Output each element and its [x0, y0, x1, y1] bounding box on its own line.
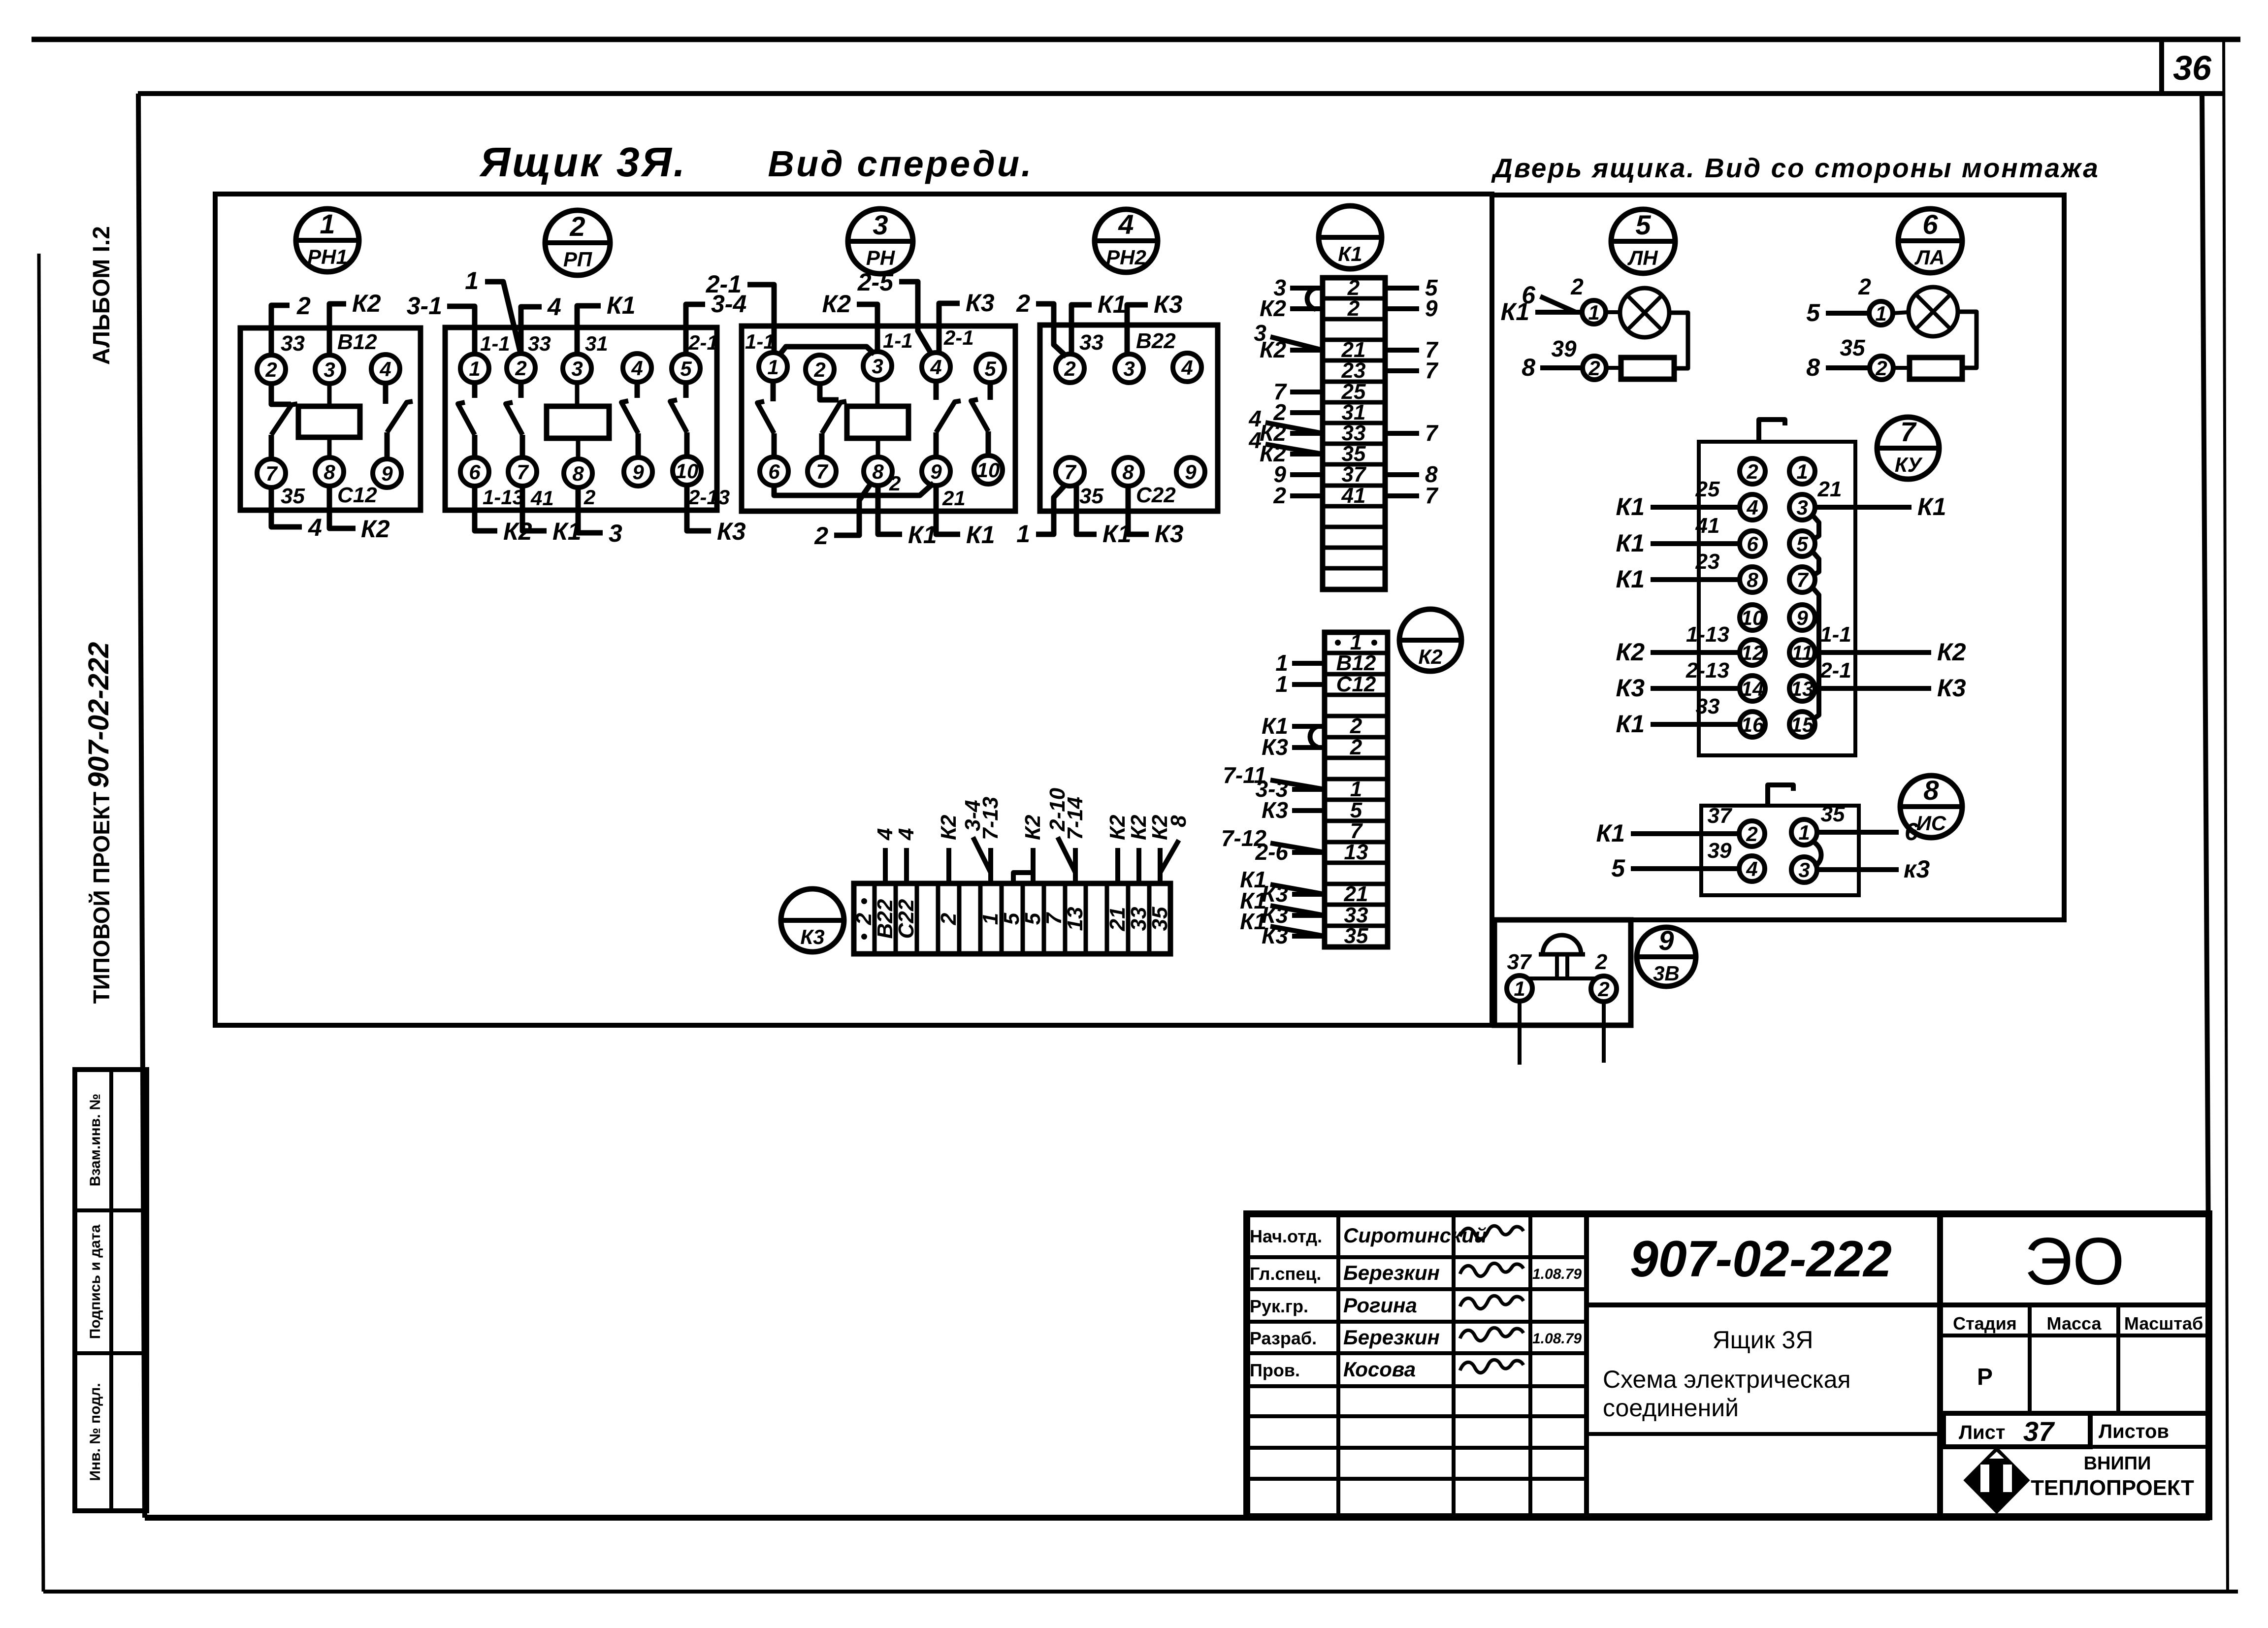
svg-text:1: 1 — [320, 208, 335, 239]
relay РП pin 5 — [672, 354, 700, 383]
svg-text:Р: Р — [1977, 1364, 1993, 1390]
svg-text:1.08.79: 1.08.79 — [1532, 1266, 1582, 1282]
svg-text:В22: В22 — [1136, 329, 1176, 353]
wire pin7 to node К1 — [1076, 485, 1097, 534]
svg-text:5: 5 — [1021, 912, 1045, 925]
svg-text:1: 1 — [1016, 520, 1030, 548]
relay РН designator circle 3/РН — [848, 209, 913, 274]
wire К1:2 to node 9 — [1385, 306, 1419, 311]
svg-text:1: 1 — [1875, 302, 1886, 325]
svg-text:3: 3 — [1798, 858, 1810, 881]
wire node 4 to К3:В22 — [883, 848, 888, 883]
contact РП 2-7 — [518, 381, 524, 398]
svg-text:907-02-222: 907-02-222 — [83, 642, 115, 788]
svg-text:36: 36 — [2173, 49, 2212, 87]
wire bell pin1 lead — [1518, 1001, 1522, 1065]
sheet bottom edge line — [43, 1590, 2238, 1594]
relay РП pin 10 — [673, 456, 701, 485]
svg-text:15: 15 — [1791, 713, 1814, 736]
terminal К2 cell dots — [1335, 640, 1341, 646]
svg-text:Березкин: Березкин — [1343, 1326, 1440, 1349]
svg-text:7: 7 — [1350, 819, 1363, 843]
wire node 2 to К1:41 — [1290, 493, 1323, 498]
relay РН1 pin 3 — [315, 355, 344, 384]
wire node 7 to К1:25 — [1290, 390, 1323, 394]
svg-text:К3: К3 — [1154, 291, 1183, 318]
jumper К1 rows 1-2 — [1307, 288, 1316, 309]
svg-text:В12: В12 — [337, 330, 377, 354]
terminal strip К2 designator circle — [1399, 609, 1461, 671]
svg-text:2: 2 — [1350, 714, 1362, 738]
svg-text:КУ: КУ — [1895, 453, 1923, 476]
svg-text:9: 9 — [1185, 460, 1197, 484]
svg-text:35: 35 — [1821, 802, 1845, 826]
svg-text:39: 39 — [1551, 336, 1577, 361]
relay РН1 pin 8 — [315, 457, 344, 486]
svg-text:9: 9 — [632, 460, 644, 484]
svg-text:16: 16 — [1741, 713, 1764, 736]
svg-text:1: 1 — [469, 357, 480, 380]
svg-text:4: 4 — [873, 828, 897, 841]
sheet right edge line — [2224, 41, 2228, 1592]
wire nodes 7-14,2-10 to К3:13 — [1073, 848, 1078, 883]
relay РН1 pin 4 — [371, 355, 400, 383]
wire КУ jumper 7-15 — [1812, 587, 1819, 720]
svg-text:5: 5 — [1796, 532, 1808, 555]
svg-text:Ящик 3Я.: Ящик 3Я. — [479, 139, 687, 185]
svg-text:К2: К2 — [822, 290, 851, 318]
svg-text:35: 35 — [1148, 907, 1172, 931]
svg-text:5: 5 — [680, 357, 692, 380]
connector КУ pin 3 — [1789, 494, 1815, 520]
svg-text:41: 41 — [1341, 484, 1366, 508]
svg-text:6: 6 — [1747, 532, 1758, 555]
svg-text:К3: К3 — [1937, 674, 1966, 702]
svg-text:К3: К3 — [966, 289, 995, 317]
svg-text:1.08.79: 1.08.79 — [1532, 1331, 1582, 1347]
svg-text:8: 8 — [572, 462, 584, 485]
relay РП pin 3 — [563, 354, 591, 383]
sheet left edge line — [39, 254, 43, 1592]
svg-text:21: 21 — [1105, 907, 1130, 932]
svg-text:4: 4 — [1181, 356, 1193, 379]
connector КУ pin 14 — [1740, 676, 1765, 701]
svg-text:35: 35 — [1079, 484, 1103, 508]
svg-text:37: 37 — [1507, 950, 1532, 974]
wire pin8 to node К1 — [878, 485, 902, 534]
svg-text:К3: К3 — [800, 925, 824, 948]
svg-text:8: 8 — [1747, 568, 1758, 591]
terminal strip К3 body — [854, 883, 1170, 954]
front view panel outline — [215, 194, 1492, 1025]
svg-text:К2: К2 — [1021, 814, 1045, 840]
relay РН1 pin 9 — [373, 459, 401, 488]
svg-text:Стадия: Стадия — [1953, 1313, 2017, 1334]
svg-text:1: 1 — [1796, 460, 1808, 483]
svg-text:РП: РП — [563, 248, 592, 271]
svg-text:7: 7 — [1425, 420, 1439, 446]
connector КУ pin 11 — [1789, 640, 1815, 665]
svg-text:2: 2 — [1273, 483, 1286, 508]
svg-text:К2: К2 — [1937, 638, 1966, 666]
svg-text:37: 37 — [2023, 1416, 2055, 1447]
contact РН1 4-9 — [383, 382, 389, 404]
svg-text:РН1: РН1 — [307, 245, 348, 268]
svg-text:9: 9 — [381, 462, 393, 485]
svg-text:2-1: 2-1 — [706, 270, 742, 298]
sidebar stamp table — [75, 1070, 147, 1511]
wire node К2 to К3:21 — [1115, 848, 1120, 883]
svg-text:В12: В12 — [1336, 651, 1376, 675]
svg-text:7: 7 — [1900, 416, 1917, 447]
svg-text:5: 5 — [1806, 299, 1820, 326]
svg-text:41: 41 — [530, 487, 554, 510]
connector ИС pin 4 — [1739, 856, 1765, 881]
svg-text:Вид спереди.: Вид спереди. — [768, 143, 1033, 184]
wire node К1 to КУ pin 6 — [1651, 541, 1740, 546]
svg-text:В22: В22 — [873, 899, 897, 939]
svg-text:Рук.гр.: Рук.гр. — [1250, 1296, 1308, 1316]
svg-text:К1: К1 — [908, 521, 937, 549]
terminal strip К3 designator circle — [781, 889, 844, 952]
connector ИС orientation key — [1768, 785, 1793, 806]
bell designator circle 9/ЗВ — [1637, 927, 1696, 986]
svg-text:21: 21 — [942, 487, 966, 510]
svg-text:2-1: 2-1 — [943, 326, 974, 349]
svg-text:ЛА: ЛА — [1914, 246, 1944, 269]
wire node 1 to К2:В12 — [1292, 661, 1325, 666]
svg-text:ВНИПИ: ВНИПИ — [2084, 1453, 2151, 1474]
lamp ЛН bulb symbol — [1620, 288, 1669, 337]
svg-text:Гл.спец.: Гл.спец. — [1250, 1264, 1321, 1284]
svg-text:2: 2 — [1595, 950, 1608, 974]
wire bulb loop to resistor — [1669, 313, 1688, 368]
connector ИС designator circle 8/ИС — [1900, 776, 1962, 838]
svg-text:К2: К2 — [1105, 814, 1130, 840]
svg-text:2: 2 — [1588, 357, 1600, 380]
svg-text:9: 9 — [930, 460, 942, 483]
relay РН pin 10 — [974, 456, 1003, 484]
svg-text:2-10: 2-10 — [1045, 787, 1069, 832]
svg-text:1: 1 — [1514, 977, 1525, 1000]
relay РН pin 4 — [922, 353, 950, 381]
svg-text:К1: К1 — [1616, 565, 1645, 593]
svg-text:37: 37 — [1708, 804, 1733, 828]
svg-text:35: 35 — [1344, 924, 1368, 948]
relay РН2 pin 7 — [1056, 457, 1084, 486]
wire node 4 to К3:С22 — [904, 848, 909, 883]
svg-text:3: 3 — [872, 355, 883, 378]
contact РН 2-7 — [820, 383, 839, 400]
svg-text:21: 21 — [1344, 882, 1368, 906]
connector КУ orientation key — [1759, 420, 1785, 442]
svg-text:2: 2 — [814, 522, 828, 550]
wire node 1 to pin2 — [485, 282, 521, 355]
svg-text:К1: К1 — [1338, 242, 1362, 265]
svg-text:2: 2 — [515, 357, 526, 380]
wire node К2 to К1:2 — [1290, 306, 1323, 311]
svg-text:Нач.отд.: Нач.отд. — [1250, 1226, 1322, 1246]
svg-text:2: 2 — [852, 912, 876, 925]
wire node К1 to pin1 — [1535, 310, 1582, 315]
contact РП 5-10 — [683, 382, 689, 398]
svg-text:10: 10 — [1741, 606, 1764, 629]
wire node К1 to КУ pin 4 — [1651, 505, 1740, 510]
connector КУ body — [1699, 442, 1855, 755]
svg-text:РН2: РН2 — [1106, 246, 1146, 269]
svg-text:К2: К2 — [1260, 295, 1286, 321]
relay РН2 pin 8 — [1114, 457, 1142, 486]
contact РП 4-9 — [635, 381, 640, 398]
svg-text:1-1: 1-1 — [745, 330, 775, 353]
svg-text:907-02-222: 907-02-222 — [1630, 1231, 1892, 1288]
svg-text:К1: К1 — [966, 521, 995, 549]
wire КУ pin3 to node К1 — [1815, 505, 1912, 510]
svg-text:2: 2 — [1064, 357, 1075, 380]
svg-text:К2: К2 — [1418, 645, 1442, 668]
svg-text:9: 9 — [1425, 295, 1438, 321]
svg-text:К2: К2 — [937, 814, 961, 840]
wire pin8 to node 2 — [834, 483, 872, 535]
connector ИС pin 3 — [1791, 857, 1817, 882]
svg-text:2-1: 2-1 — [688, 331, 718, 354]
svg-text:1-1: 1-1 — [1820, 622, 1851, 647]
svg-text:Масса: Масса — [2047, 1313, 2102, 1334]
wire КУ pin11 to node К2 — [1815, 650, 1931, 655]
svg-text:К1: К1 — [1098, 291, 1127, 318]
wire pin2 to resistor — [1606, 366, 1621, 370]
svg-text:1-13: 1-13 — [483, 486, 524, 509]
wire node К3 to К2:5 — [1292, 808, 1325, 813]
svg-text:К3: К3 — [1262, 797, 1288, 823]
svg-text:1: 1 — [767, 356, 778, 379]
svg-text:4: 4 — [930, 356, 941, 379]
svg-text:4: 4 — [379, 358, 391, 381]
svg-text:41: 41 — [1695, 514, 1720, 538]
title block divider left — [1584, 1214, 1589, 1517]
relay РН pin 6 — [760, 457, 788, 486]
wire node К2 to КУ pin 12 — [1651, 650, 1740, 655]
wire node 3-1 to pin1 — [447, 306, 475, 355]
svg-text:3: 3 — [324, 358, 335, 381]
svg-text:Березкин: Березкин — [1343, 1261, 1440, 1284]
svg-text:1: 1 — [1350, 777, 1362, 801]
svg-text:6: 6 — [1905, 818, 1919, 846]
wire node 2-1 to pin1 — [747, 285, 774, 354]
bell enclosure box — [1494, 920, 1631, 1025]
svg-text:2: 2 — [813, 358, 825, 381]
wire К1:23 to node 7 — [1385, 368, 1419, 373]
title block line above sheet row — [1940, 1411, 2209, 1416]
svg-text:К1: К1 — [607, 292, 636, 319]
svg-text:7: 7 — [816, 460, 828, 483]
relay РН2 pin 3 — [1115, 354, 1143, 383]
bell pin 2 — [1591, 976, 1617, 1002]
svg-text:К3: К3 — [1262, 734, 1288, 760]
connector КУ pin 6 — [1740, 531, 1765, 556]
svg-text:2-1: 2-1 — [1819, 658, 1851, 683]
lamp ЛА pin 1 — [1869, 301, 1893, 325]
wire node 5 to pin1 — [1826, 311, 1869, 316]
svg-text:9: 9 — [1658, 925, 1674, 956]
relay РН1 pin 7 — [257, 459, 286, 488]
title block signature table rows — [1247, 1255, 1587, 1259]
svg-text:К2: К2 — [1616, 638, 1645, 666]
svg-text:4: 4 — [547, 293, 561, 321]
svg-text:2: 2 — [296, 292, 311, 320]
svg-text:ЛН: ЛН — [1627, 246, 1658, 269]
connector ИС pin 1 — [1791, 819, 1817, 845]
svg-text:АЛЬБОМ I.2: АЛЬБОМ I.2 — [89, 226, 115, 365]
svg-text:8: 8 — [1522, 354, 1535, 381]
relay РН1 pin 2 — [257, 355, 286, 384]
svg-text:к3: к3 — [1904, 855, 1930, 883]
relay РН pin 9 — [922, 457, 950, 486]
wire node 3 to К1:2 — [1290, 286, 1323, 291]
svg-text:Схема электрическая: Схема электрическая — [1603, 1366, 1851, 1393]
svg-text:4: 4 — [1746, 496, 1758, 519]
svg-text:37: 37 — [1342, 462, 1367, 487]
svg-text:8: 8 — [1166, 815, 1191, 827]
svg-text:К3: К3 — [1155, 520, 1184, 548]
wire internal bus pin6 to pin9 — [774, 483, 934, 495]
connector КУ pin 10 — [1740, 605, 1765, 630]
svg-text:Дверь ящика. Вид со стороны м: Дверь ящика. Вид со стороны монтажа — [1491, 153, 2100, 183]
svg-text:7: 7 — [1042, 912, 1066, 925]
contact РН 1-6 — [771, 380, 776, 401]
svg-text:1-1: 1-1 — [480, 332, 510, 355]
relay РН pin 5 — [976, 354, 1004, 383]
coil РН — [847, 406, 908, 438]
svg-text:8: 8 — [1923, 775, 1939, 806]
svg-text:Рогина: Рогина — [1343, 1294, 1417, 1317]
svg-text:7: 7 — [1425, 358, 1439, 383]
wire pin1 to bulb — [1893, 312, 1909, 313]
svg-text:3-1: 3-1 — [407, 292, 442, 320]
wire pin9 to node К1 — [936, 485, 960, 534]
wire node 1 to pin7 — [1036, 485, 1066, 534]
wire internal bus pin1 to pin3 — [778, 347, 875, 356]
coil РП — [547, 406, 609, 438]
svg-text:Разраб.: Разраб. — [1250, 1328, 1317, 1348]
svg-text:4: 4 — [894, 828, 918, 841]
svg-text:10: 10 — [676, 459, 699, 483]
wire node К1 to pin2 — [1071, 305, 1092, 355]
svg-text:2: 2 — [1570, 274, 1584, 299]
svg-text:2: 2 — [1016, 290, 1030, 317]
svg-text:ИС: ИС — [1916, 812, 1946, 835]
wire pin2 to resistor — [1893, 366, 1910, 370]
connector КУ designator circle 7/КУ — [1877, 417, 1939, 479]
lamp ЛА bulb symbol — [1909, 287, 1958, 336]
svg-text:К3: К3 — [717, 518, 746, 545]
connector КУ pin 5 — [1789, 531, 1815, 556]
svg-text:7: 7 — [265, 462, 278, 485]
svg-text:8: 8 — [1122, 460, 1134, 484]
svg-text:С22: С22 — [894, 899, 918, 939]
resistor ЛА — [1910, 358, 1962, 379]
svg-text:1: 1 — [465, 267, 479, 294]
wire bell pin2 lead — [1602, 1002, 1606, 1063]
svg-text:Листов: Листов — [2099, 1421, 2169, 1442]
connector ИС body — [1701, 806, 1859, 895]
svg-text:13: 13 — [1063, 907, 1087, 931]
wire К1:41 to node 7 — [1385, 493, 1419, 498]
svg-text:8: 8 — [872, 460, 884, 483]
relay РН2 pin 4 — [1173, 353, 1201, 382]
svg-text:33: 33 — [1127, 907, 1151, 931]
wire nodes К2,8 to К3:35 — [1158, 848, 1163, 883]
wire node 1 to К2:С12 — [1292, 682, 1325, 687]
svg-text:23: 23 — [1695, 550, 1720, 574]
svg-text:Пров.: Пров. — [1250, 1360, 1300, 1380]
svg-text:Взам.инв. №: Взам.инв. № — [87, 1094, 103, 1187]
svg-text:6: 6 — [469, 460, 481, 484]
relay РН body — [742, 326, 1015, 511]
svg-text:Инв. № подл.: Инв. № подл. — [87, 1383, 103, 1481]
relay РН pin 7 — [808, 457, 836, 486]
svg-text:35: 35 — [281, 484, 305, 508]
svg-text:21: 21 — [1817, 477, 1842, 501]
svg-text:Подпись и дата: Подпись и дата — [87, 1224, 103, 1339]
svg-text:С12: С12 — [1336, 672, 1376, 696]
wire pin1 to bulb — [1606, 310, 1620, 314]
wire node К1 to К2:2 — [1292, 724, 1325, 729]
svg-text:4: 4 — [308, 514, 322, 541]
connector ИС pin 2 — [1739, 821, 1765, 847]
relay РН pin 2 — [806, 355, 834, 384]
svg-text:4: 4 — [631, 357, 643, 380]
title block frame — [1247, 1214, 2209, 1517]
connector КУ pin 15 — [1789, 712, 1815, 737]
svg-text:К1: К1 — [1616, 710, 1645, 738]
wire node К3 to К2:2 — [1292, 745, 1325, 750]
wire pin7 to node К1 — [522, 485, 547, 531]
title block line under number — [1587, 1302, 2209, 1307]
lamp ЛА designator circle 6/ЛА — [1898, 209, 1962, 273]
jumper К3 cols 8-9 — [1013, 873, 1031, 881]
lamp ЛН pin 1 — [1582, 300, 1606, 324]
svg-text:4: 4 — [1746, 857, 1757, 880]
svg-text:2: 2 — [569, 211, 585, 242]
relay РН pin 3 — [863, 352, 892, 380]
connector КУ pin 13 — [1789, 676, 1815, 701]
page number box 36 — [2159, 41, 2164, 94]
connector КУ pin 2 — [1740, 458, 1765, 484]
title block line under name — [1587, 1432, 1940, 1436]
svg-text:К1: К1 — [1616, 529, 1645, 557]
contact РН 4-9 — [934, 380, 939, 400]
wire ИС jumper 1-3 — [1812, 841, 1821, 867]
lamp ЛН pin 2 — [1583, 356, 1606, 380]
svg-text:РН: РН — [866, 246, 896, 269]
wire pin8 to node К3 — [1128, 485, 1149, 534]
svg-text:2: 2 — [1858, 274, 1871, 299]
wire К1:2 to node 5 — [1385, 286, 1419, 291]
wire node К1 to КУ pin 8 — [1651, 577, 1740, 582]
svg-text:Сиротинский: Сиротинский — [1343, 1224, 1487, 1247]
connector КУ pin 16 — [1740, 712, 1765, 737]
relay РП pin 9 — [624, 457, 652, 486]
svg-text:ЭО: ЭО — [2024, 1224, 2125, 1299]
bell dome symbol — [1543, 935, 1581, 954]
svg-text:2-13: 2-13 — [688, 486, 730, 509]
wire pin2 to node 2 — [271, 305, 290, 356]
relay РП pin 8 — [564, 459, 592, 488]
contact РН1 2-7 — [271, 383, 291, 404]
svg-text:К1: К1 — [1917, 493, 1946, 521]
svg-text:33: 33 — [1079, 330, 1103, 355]
